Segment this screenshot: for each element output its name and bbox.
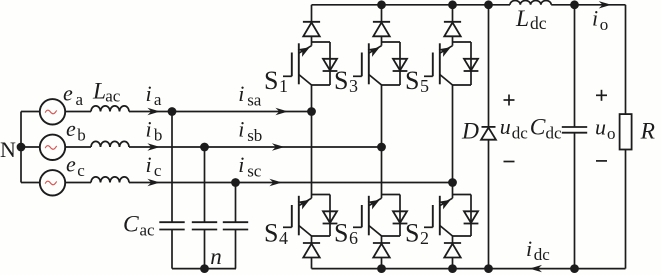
svg-text:e: e	[66, 152, 76, 177]
igbt S5	[424, 42, 453, 85]
svg-text:b: b	[154, 126, 163, 145]
wire n bus	[172, 268, 236, 270]
svg-text:L: L	[92, 79, 106, 105]
svg-text:i: i	[238, 117, 244, 142]
wire isb segment	[205, 146, 382, 148]
svg-text:c: c	[154, 161, 162, 180]
capacitor Cac phase a	[159, 222, 184, 229]
svg-text:D: D	[461, 119, 479, 145]
label S5	[405, 66, 429, 96]
svg-text:o: o	[600, 15, 609, 34]
inductor Lac phase b	[91, 141, 129, 147]
svg-text:c: c	[77, 161, 85, 180]
wire isa segment	[172, 111, 312, 113]
svg-text:S: S	[264, 219, 278, 248]
node leg a / phase a	[307, 107, 316, 116]
label isb	[238, 117, 262, 145]
label isa	[238, 81, 262, 109]
wire top bus right	[551, 4, 625, 6]
svg-text:i: i	[238, 152, 244, 177]
wire source ec to inductor	[65, 182, 91, 184]
node top bus Cdc	[570, 0, 579, 9]
label udc minus	[504, 161, 515, 163]
wire ic segment	[129, 182, 236, 184]
svg-text:S: S	[334, 66, 348, 95]
wire S2 diode branch	[453, 195, 472, 237]
wire leg b vertical	[381, 85, 383, 195]
inductor Ldc	[510, 1, 551, 5]
wire S5 diode branch	[453, 42, 472, 85]
igbt S4 emitter arrow	[298, 200, 310, 210]
antiparallel diode of S6	[393, 211, 408, 223]
svg-text:i: i	[146, 81, 152, 106]
inductor Lac phase a	[91, 106, 129, 112]
svg-text:N: N	[0, 137, 16, 162]
label R	[640, 119, 655, 145]
wire top bus drop S5	[452, 5, 454, 22]
label ic	[146, 152, 162, 180]
svg-text:a: a	[154, 90, 162, 109]
svg-text:R: R	[640, 119, 655, 145]
series diode of S5	[444, 22, 461, 37]
svg-text:i: i	[146, 152, 152, 177]
svg-text:sb: sb	[247, 126, 262, 145]
wire S1 diode branch	[312, 42, 331, 85]
wire top bus drop S3	[381, 5, 383, 22]
svg-text:a: a	[76, 90, 84, 109]
wire S2 igbt to diode	[452, 236, 454, 243]
node leg c / phase c	[448, 178, 457, 187]
label uo minus	[596, 160, 607, 162]
antiparallel diode of S5	[464, 59, 479, 71]
arrow isa	[275, 108, 288, 115]
svg-text:S: S	[405, 219, 419, 248]
svg-text:L: L	[515, 6, 529, 32]
node n	[200, 264, 209, 273]
arrow io	[599, 1, 612, 8]
label S2	[405, 219, 429, 249]
wire bottom bus	[312, 268, 626, 270]
series diode of S6	[373, 243, 390, 258]
label ec	[66, 152, 85, 181]
wire D branch upper	[488, 5, 490, 127]
igbt S5 emitter arrow	[439, 47, 451, 57]
wire source ec left lead	[21, 182, 41, 184]
node bottom bus D	[484, 264, 493, 273]
svg-text:u: u	[500, 114, 511, 139]
svg-text:o: o	[607, 124, 616, 143]
wire S4 igbt to diode	[311, 236, 313, 243]
label io	[592, 6, 608, 34]
label Cac	[123, 211, 155, 239]
node N	[17, 143, 26, 152]
series diode of S3	[373, 22, 390, 37]
node bottom bus leg c	[448, 264, 457, 273]
diode D	[481, 127, 496, 140]
node top bus D	[484, 0, 493, 9]
label N	[0, 137, 16, 162]
svg-text:u: u	[595, 115, 606, 140]
arrow ib	[147, 143, 160, 150]
capacitor Cac phase c	[223, 222, 248, 229]
svg-text:3: 3	[349, 76, 358, 96]
arrow isb	[272, 143, 285, 150]
label idc	[526, 236, 550, 264]
wire load branch lower	[625, 150, 627, 269]
wire ia segment	[129, 111, 172, 113]
label S4	[264, 219, 288, 249]
svg-text:sc: sc	[247, 161, 262, 180]
svg-text:sa: sa	[247, 90, 262, 109]
igbt S3	[353, 42, 382, 85]
svg-text:i: i	[592, 6, 598, 31]
capacitor Cdc	[562, 127, 587, 133]
series diode of S4	[303, 243, 320, 258]
wire C_ac c lower	[235, 230, 237, 269]
node top bus leg b	[377, 0, 386, 9]
wire S5 diode to igbt	[452, 36, 454, 42]
igbt S3 emitter arrow	[368, 47, 380, 57]
wire leg a vertical	[311, 85, 313, 195]
capacitor Cac phase b	[192, 222, 217, 229]
ac source ec	[40, 170, 65, 195]
node bottom bus leg b	[377, 264, 386, 273]
svg-text:dc: dc	[512, 123, 529, 142]
label Ldc	[515, 6, 547, 33]
series diode of S1	[303, 22, 320, 37]
arrow isc	[269, 179, 282, 186]
svg-text:C: C	[530, 114, 546, 140]
igbt S4	[283, 195, 312, 237]
svg-text:ac: ac	[105, 87, 121, 106]
svg-text:dc: dc	[546, 124, 563, 143]
wire S6 igbt to diode	[381, 236, 383, 243]
label S1	[264, 66, 288, 96]
igbt S1	[283, 42, 312, 85]
svg-text:dc: dc	[530, 13, 547, 33]
svg-text:4: 4	[279, 228, 288, 248]
node leg b / phase b	[377, 143, 386, 152]
node phase a filter tap	[168, 107, 177, 116]
ac source eb	[40, 135, 65, 160]
label ib	[146, 116, 163, 144]
inductor Lac phase c	[91, 177, 129, 183]
label ea	[63, 80, 84, 109]
arrow ic	[147, 179, 160, 186]
wire C_ac a lower	[171, 230, 173, 269]
wire S6 diode to bottom bus	[381, 257, 383, 268]
antiparallel diode of S3	[393, 59, 408, 71]
label eb	[66, 116, 86, 145]
label S6	[334, 219, 358, 249]
wire source eb left lead	[21, 146, 41, 148]
wire C_ac b lower	[204, 230, 206, 269]
wire S3 diode to igbt	[381, 36, 383, 42]
svg-text:1: 1	[279, 76, 288, 96]
wire source ea left lead	[21, 111, 41, 113]
wire left bus vertical	[20, 112, 22, 183]
arrow ia	[147, 108, 160, 115]
svg-text:S: S	[334, 219, 348, 248]
igbt S2 emitter arrow	[439, 200, 451, 210]
wire Cdc lower	[574, 133, 576, 269]
ac source ea	[40, 99, 65, 124]
svg-text:2: 2	[420, 228, 429, 248]
wire source eb to inductor	[65, 146, 91, 148]
label udc	[500, 114, 529, 142]
label Cdc	[530, 114, 562, 142]
igbt S6	[353, 195, 382, 237]
antiparallel diode of S4	[323, 211, 338, 223]
svg-text:e: e	[63, 80, 73, 105]
wire S6 diode branch	[382, 195, 401, 237]
svg-text:n: n	[210, 244, 222, 269]
label D	[461, 119, 479, 145]
node bottom bus Cdc	[570, 264, 579, 273]
svg-text:b: b	[77, 126, 86, 145]
svg-text:S: S	[405, 66, 419, 95]
label uo plus	[596, 90, 607, 101]
label isc	[238, 152, 262, 180]
label ia	[146, 81, 162, 109]
wire S4 diode to bottom bus	[311, 257, 313, 268]
wire isc segment	[236, 182, 453, 184]
svg-text:S: S	[264, 66, 278, 95]
wire S3 diode branch	[382, 42, 401, 85]
wire D branch lower	[488, 140, 490, 269]
wire leg c vertical	[452, 85, 454, 195]
node phase b filter tap	[200, 143, 209, 152]
igbt S6 emitter arrow	[368, 200, 380, 210]
node phase c filter tap	[231, 178, 240, 187]
igbt S1 emitter arrow	[298, 47, 310, 57]
wire load branch upper	[625, 5, 627, 114]
svg-text:e: e	[66, 116, 76, 141]
label S3	[334, 66, 358, 96]
wire S2 diode to bottom bus	[452, 257, 454, 268]
label udc plus	[504, 95, 515, 106]
wire top bus drop S1	[311, 5, 313, 22]
arrow idc	[529, 265, 542, 272]
node top bus leg c	[448, 0, 457, 9]
wire S4 diode branch	[312, 195, 331, 237]
svg-text:5: 5	[420, 76, 429, 96]
wire C_ac a upper	[171, 112, 173, 223]
svg-text:C: C	[123, 211, 139, 237]
svg-text:i: i	[526, 236, 532, 261]
svg-text:i: i	[146, 116, 152, 141]
igbt S2	[424, 195, 453, 237]
resistor R	[620, 114, 632, 149]
antiparallel diode of S2	[464, 211, 479, 223]
label n	[210, 244, 222, 269]
antiparallel diode of S1	[323, 59, 338, 71]
wire ib segment	[129, 146, 205, 148]
wire Cdc upper	[574, 5, 576, 127]
svg-text:dc: dc	[534, 245, 551, 264]
svg-text:i: i	[238, 81, 244, 106]
label uo	[595, 115, 616, 143]
wire C_ac b upper	[204, 147, 206, 222]
label Lac	[92, 79, 121, 106]
wire source ea to inductor	[65, 111, 91, 113]
svg-text:6: 6	[349, 228, 358, 248]
svg-text:ac: ac	[140, 221, 156, 240]
wire S1 diode to igbt	[311, 36, 313, 42]
series diode of S2	[444, 243, 461, 258]
wire C_ac c upper	[235, 183, 237, 223]
wire top bus left	[312, 4, 511, 6]
